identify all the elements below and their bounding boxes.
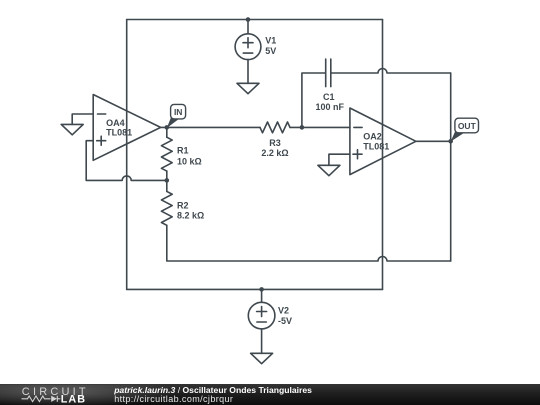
svg-text:100 nF: 100 nF (316, 102, 345, 112)
wire top rail (127, 19, 383, 21)
wire C1 left down to R3 node (302, 73, 326, 127)
svg-text:TL081: TL081 (106, 128, 132, 138)
V2 minus sign (257, 321, 266, 323)
ground below V2 (251, 353, 273, 363)
wire IN node to R3 (167, 126, 260, 128)
capacitor C1 plates (326, 59, 331, 87)
wire V1 top stem (247, 20, 249, 34)
op-amp U OA2 triangle (350, 108, 416, 175)
wire OA4 noninverting feedback (86, 141, 167, 181)
voltage source V1 (235, 34, 261, 60)
voltage source V2 (248, 302, 275, 329)
wire OA4 inverting input to ground (72, 114, 93, 124)
svg-text:5V: 5V (265, 46, 276, 56)
resistor R2 (161, 191, 172, 225)
op-amp U OA4 triangle (93, 95, 160, 161)
V1 minus sign (243, 52, 252, 54)
OA2 plus input sign (353, 150, 362, 159)
svg-text:R1: R1 (177, 146, 189, 156)
wire V2 top stem (261, 289, 263, 302)
ground at OA4 inverting input (61, 124, 83, 134)
svg-text:OA4: OA4 (106, 118, 125, 128)
wire node to R2 (166, 180, 168, 191)
svg-text:R3: R3 (269, 138, 281, 148)
V1 plus sign (243, 38, 253, 48)
wire bottom rail (127, 288, 383, 290)
logo resistor squiggle and diode (22, 396, 61, 402)
svg-text:http://circuitlab.com/cjbrqur: http://circuitlab.com/cjbrqur (114, 394, 233, 404)
flag IN box (171, 104, 186, 119)
wire R3 to OA2 inverting input (290, 126, 350, 128)
logo diode triangle (51, 396, 57, 402)
svg-text:10 kΩ: 10 kΩ (177, 156, 202, 166)
wire R2 bottom to OUT rail (167, 225, 451, 261)
resistor R3 (260, 122, 290, 133)
V2 plus sign (257, 307, 267, 317)
svg-text:-5V: -5V (278, 316, 292, 326)
flag OUT box (455, 118, 479, 133)
svg-text:2.2 kΩ: 2.2 kΩ (261, 148, 288, 158)
wire OA4 output lead (161, 126, 167, 128)
svg-text:LAB: LAB (61, 393, 86, 405)
svg-text:TL081: TL081 (363, 141, 389, 151)
wire V2 bottom stem (261, 329, 263, 353)
node junction V1 top (246, 17, 251, 22)
svg-text:8.2 kΩ: 8.2 kΩ (177, 211, 204, 221)
node OUT junction (448, 139, 453, 144)
wire R1 to node (166, 171, 168, 180)
flag OUT pointer (451, 132, 464, 142)
wire C1 right to OUT rail (331, 69, 451, 73)
node R1 R2 junction (165, 178, 170, 183)
OA2 minus input sign (354, 126, 362, 128)
svg-text:IN: IN (174, 107, 183, 117)
wire right supply rail (382, 20, 384, 290)
node IN junction (165, 125, 170, 130)
OA4 plus input sign (97, 136, 106, 145)
svg-text:OUT: OUT (458, 121, 477, 131)
ground at OA2 noninverting input (318, 165, 340, 175)
wire OA2 noninverting input to ground (329, 154, 350, 165)
wire V1 bottom stem (247, 60, 249, 84)
ground below V1 (237, 83, 259, 93)
svg-text:OA2: OA2 (363, 131, 382, 141)
wire OA2 output (416, 140, 451, 142)
svg-text:V2: V2 (278, 306, 289, 316)
svg-text:C1: C1 (323, 92, 335, 102)
OA4 minus input sign (98, 113, 106, 115)
wire OUT vertical (450, 73, 452, 261)
svg-text:V1: V1 (265, 36, 276, 46)
svg-text:R2: R2 (177, 201, 189, 211)
node R3 C1 junction (300, 125, 305, 130)
wire left supply rail (126, 20, 128, 290)
wire IN node to R1 (166, 127, 168, 137)
resistor R1 (161, 137, 172, 171)
flag IN pointer (167, 118, 179, 128)
node V2 junction (259, 287, 264, 292)
footer bar (0, 384, 540, 405)
